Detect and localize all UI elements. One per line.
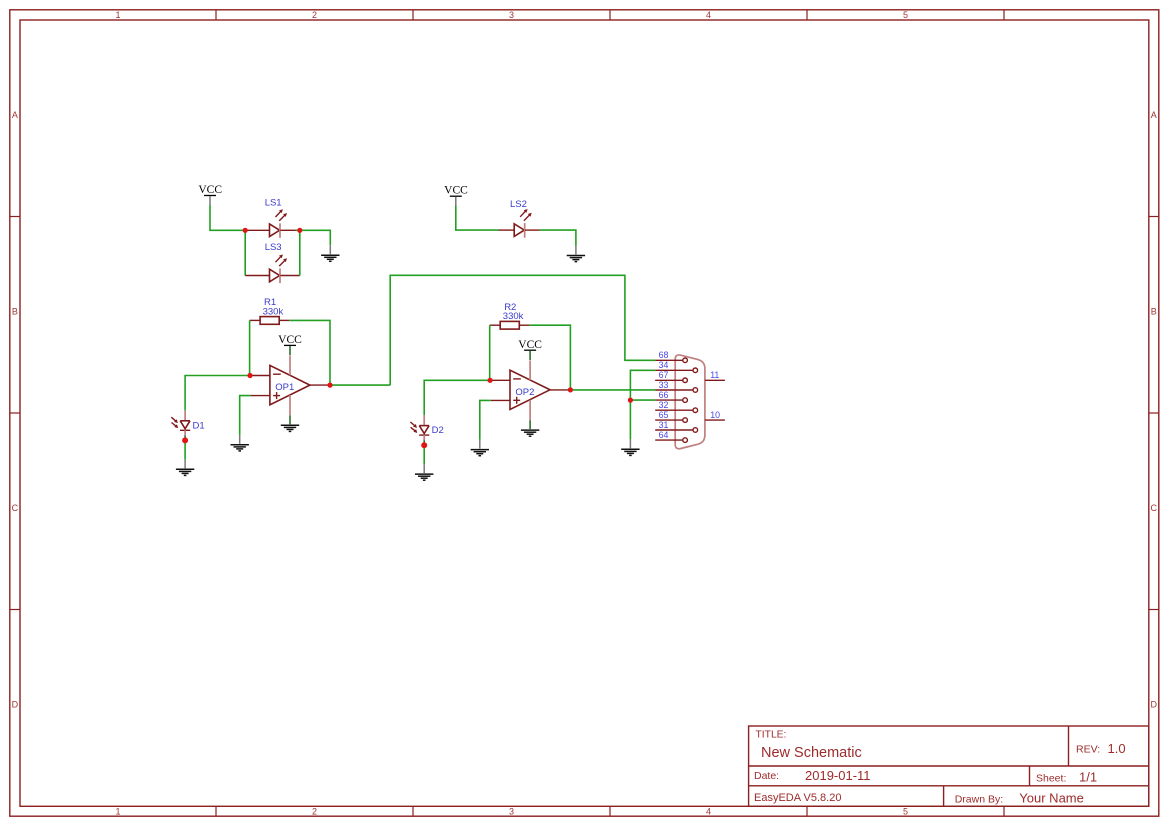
power flag VCC net 2 bbox=[444, 185, 468, 206]
photodiode D2 bbox=[410, 415, 429, 443]
ground for OP2 power pin bbox=[521, 420, 539, 436]
svg-text:A: A bbox=[12, 110, 18, 120]
wire R2 left to OP2 inverting input bbox=[489, 325, 491, 380]
svg-text:Drawn By:: Drawn By: bbox=[955, 793, 1003, 805]
svg-text:C: C bbox=[1151, 503, 1158, 513]
connector pin 66 bbox=[655, 398, 687, 403]
svg-text:D1: D1 bbox=[193, 420, 205, 431]
svg-text:OP1: OP1 bbox=[275, 382, 294, 393]
wire OP2 non-inverting input to ground bbox=[480, 400, 491, 439]
svg-text:LS3: LS3 bbox=[265, 242, 282, 253]
wire D2 to OP2 inverting input bbox=[424, 380, 490, 415]
svg-text:1/1: 1/1 bbox=[1079, 770, 1097, 785]
wire OP1 output to connector pin 68 (long net) bbox=[390, 275, 655, 385]
connector pin 34 bbox=[655, 368, 697, 373]
wire OP1 non-inverting input to ground bbox=[240, 396, 251, 435]
svg-text:64: 64 bbox=[659, 430, 669, 440]
svg-text:2019-01-11: 2019-01-11 bbox=[805, 768, 871, 783]
svg-text:2: 2 bbox=[312, 807, 317, 817]
svg-text:330k: 330k bbox=[503, 311, 524, 322]
ground for OP2 non-inverting input bbox=[471, 440, 489, 456]
wire VCC1 to LS1 anode bbox=[210, 205, 247, 230]
svg-text:68: 68 bbox=[659, 350, 669, 360]
connector pin 67 bbox=[655, 378, 687, 383]
power flag VCC for OP1 bbox=[278, 334, 302, 355]
connector pin 11 bbox=[705, 379, 725, 381]
power flag VCC for OP2 bbox=[518, 339, 542, 360]
svg-text:34: 34 bbox=[659, 360, 669, 370]
wire R1 right to OP1 output bbox=[289, 320, 330, 385]
wire R1 left to OP1 inverting input bbox=[249, 320, 251, 375]
wire OP1 output bbox=[330, 384, 390, 386]
svg-text:LS2: LS2 bbox=[510, 199, 527, 210]
svg-text:4: 4 bbox=[706, 807, 711, 817]
op-amp OP1 bbox=[250, 356, 330, 416]
svg-text:31: 31 bbox=[659, 420, 669, 430]
svg-text:C: C bbox=[12, 503, 19, 513]
svg-text:4: 4 bbox=[706, 10, 711, 20]
ground for LS2 bbox=[567, 246, 585, 262]
svg-text:VCC: VCC bbox=[518, 339, 542, 351]
op-amp OP2 bbox=[490, 360, 570, 420]
wire D2 cathode to ground bbox=[423, 445, 425, 464]
svg-text:EasyEDA V5.8.20: EasyEDA V5.8.20 bbox=[754, 792, 841, 804]
ground for OP1 non-inverting input bbox=[231, 435, 249, 451]
wire VCC2 to LS2 anode bbox=[456, 206, 499, 230]
connector pin 31 bbox=[655, 428, 697, 433]
wire D1 cathode to ground bbox=[184, 440, 186, 459]
connector pin 65 bbox=[655, 418, 687, 423]
svg-text:D: D bbox=[1151, 699, 1158, 709]
connector pin 64 bbox=[655, 438, 687, 443]
svg-text:1: 1 bbox=[115, 10, 120, 20]
svg-text:REV:: REV: bbox=[1076, 744, 1100, 756]
title block bbox=[749, 726, 1149, 806]
connector U1 body bbox=[675, 355, 705, 449]
wire LS1 anode to LS3 anode bbox=[244, 230, 246, 275]
svg-text:66: 66 bbox=[659, 390, 669, 400]
resistor R2 bbox=[490, 321, 530, 329]
svg-text:67: 67 bbox=[659, 370, 669, 380]
photodiode D1 bbox=[171, 410, 190, 438]
svg-text:New Schematic: New Schematic bbox=[761, 745, 862, 761]
svg-text:A: A bbox=[1151, 110, 1157, 120]
svg-text:3: 3 bbox=[509, 10, 514, 20]
svg-text:B: B bbox=[1151, 306, 1157, 316]
wire junction to connector pin 66 bbox=[630, 399, 655, 401]
LED LS3 bbox=[245, 254, 300, 283]
junction OP2 output node bbox=[568, 387, 573, 392]
svg-text:Sheet:: Sheet: bbox=[1036, 773, 1066, 785]
junction LS1 anode node bbox=[243, 228, 248, 233]
wire LS2 cathode to ground bbox=[540, 230, 576, 246]
junction OP2 inverting node bbox=[488, 378, 493, 383]
svg-text:OP2: OP2 bbox=[515, 387, 534, 398]
svg-text:D2: D2 bbox=[432, 425, 444, 436]
connector pin 68 bbox=[655, 358, 687, 363]
svg-text:Date:: Date: bbox=[754, 770, 779, 782]
svg-text:33: 33 bbox=[659, 380, 669, 390]
wire OP2 output to connector pin 33 bbox=[570, 389, 655, 391]
junction connector ground node (pin 66) bbox=[628, 398, 633, 403]
connector pin 10 bbox=[705, 419, 725, 421]
resistor R1 bbox=[250, 317, 290, 325]
svg-text:330k: 330k bbox=[263, 306, 284, 317]
junction D2 cathode node bbox=[421, 442, 427, 448]
ground for LS1/LS3 bbox=[321, 245, 339, 261]
svg-text:5: 5 bbox=[903, 807, 908, 817]
wire R2 right to OP2 output bbox=[529, 325, 570, 390]
svg-text:10: 10 bbox=[710, 410, 720, 420]
svg-text:2: 2 bbox=[312, 10, 317, 20]
LED LS1 bbox=[245, 209, 295, 238]
junction D1 cathode node bbox=[182, 437, 188, 443]
power flag VCC net 1 bbox=[198, 184, 222, 205]
wire connector pin 34 to ground net bbox=[630, 370, 655, 439]
svg-text:TITLE:: TITLE: bbox=[756, 730, 787, 741]
svg-text:VCC: VCC bbox=[198, 184, 222, 196]
wire LS1 cathode to ground bbox=[296, 230, 331, 245]
junction LS1 cathode node bbox=[297, 228, 302, 233]
connector pin 32 bbox=[655, 408, 697, 413]
svg-text:D: D bbox=[12, 699, 19, 709]
svg-text:32: 32 bbox=[659, 400, 669, 410]
ground for D2 bbox=[415, 464, 433, 480]
ground for connector bbox=[621, 439, 639, 455]
LED LS2 bbox=[499, 209, 540, 238]
junction OP1 inverting node bbox=[247, 373, 252, 378]
svg-text:VCC: VCC bbox=[444, 185, 468, 197]
connector pin 33 bbox=[655, 388, 697, 393]
svg-text:65: 65 bbox=[659, 410, 669, 420]
svg-text:1.0: 1.0 bbox=[1108, 741, 1126, 756]
wire LS1 cathode to LS3 cathode bbox=[299, 230, 301, 275]
junction OP1 output node bbox=[327, 383, 332, 388]
svg-text:11: 11 bbox=[710, 370, 719, 380]
wire D1 to OP1 inverting input bbox=[185, 376, 250, 411]
svg-text:3: 3 bbox=[509, 807, 514, 817]
ground for OP1 power pin bbox=[281, 415, 299, 431]
svg-text:LS1: LS1 bbox=[265, 198, 282, 209]
svg-text:VCC: VCC bbox=[278, 334, 302, 346]
svg-text:Your Name: Your Name bbox=[1019, 790, 1084, 805]
ground for D1 bbox=[176, 459, 194, 475]
svg-text:1: 1 bbox=[115, 807, 120, 817]
svg-text:B: B bbox=[12, 306, 18, 316]
svg-text:5: 5 bbox=[903, 10, 908, 20]
